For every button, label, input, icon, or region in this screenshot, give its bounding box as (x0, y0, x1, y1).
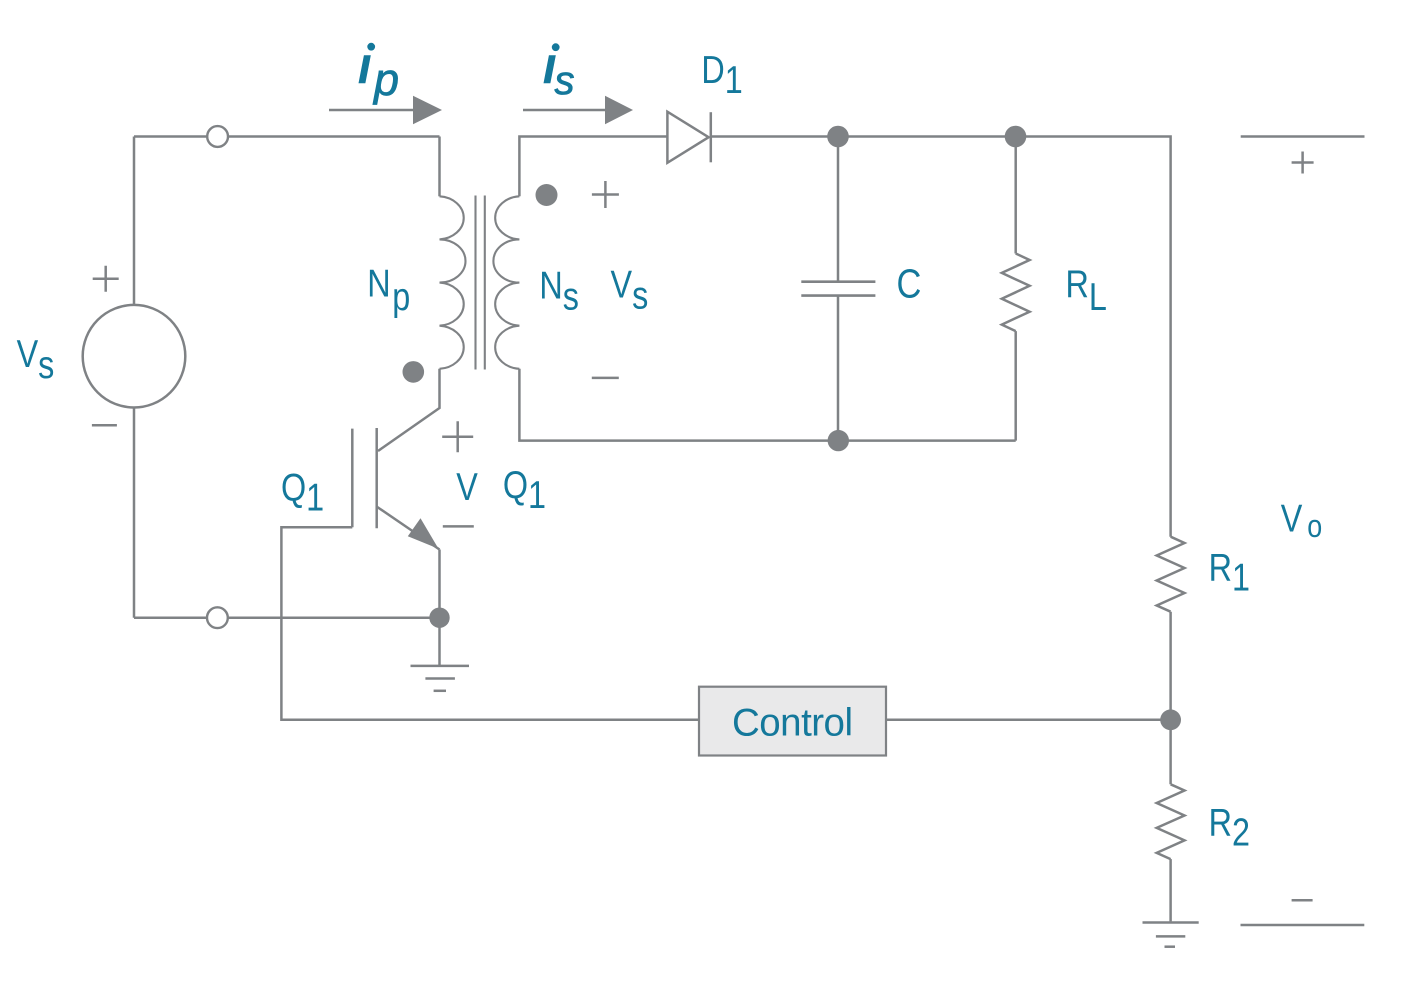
svg-text:Control: Control (732, 701, 853, 744)
svg-text:s: s (555, 59, 575, 103)
svg-text:C: C (897, 262, 922, 307)
svg-text:V: V (456, 465, 478, 508)
svg-text:p: p (372, 54, 399, 105)
